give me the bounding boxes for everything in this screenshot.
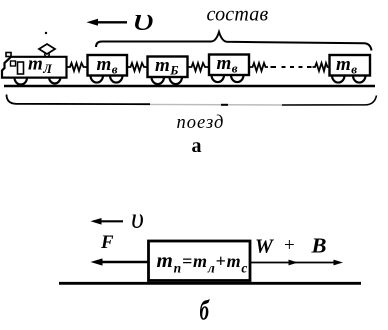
svg-text:υ: υ (131, 204, 144, 235)
svg-text:W: W (255, 236, 274, 258)
svg-text:mв: mв (336, 54, 357, 77)
svg-text:+: + (284, 235, 295, 256)
svg-text:б: б (200, 295, 210, 327)
svg-text:B: B (310, 234, 326, 258)
svg-text:поезд: поезд (177, 113, 225, 133)
svg-text:состав: состав (207, 4, 269, 26)
svg-text:F: F (100, 232, 114, 253)
svg-text:mп=mл+mс: mп=mл+mс (157, 248, 249, 276)
svg-text:mБ: mБ (155, 55, 179, 78)
svg-text:а: а (192, 135, 202, 157)
svg-text:υ: υ (133, 1, 154, 37)
svg-text:mв: mв (217, 53, 238, 76)
svg-text:mв: mв (97, 54, 118, 77)
